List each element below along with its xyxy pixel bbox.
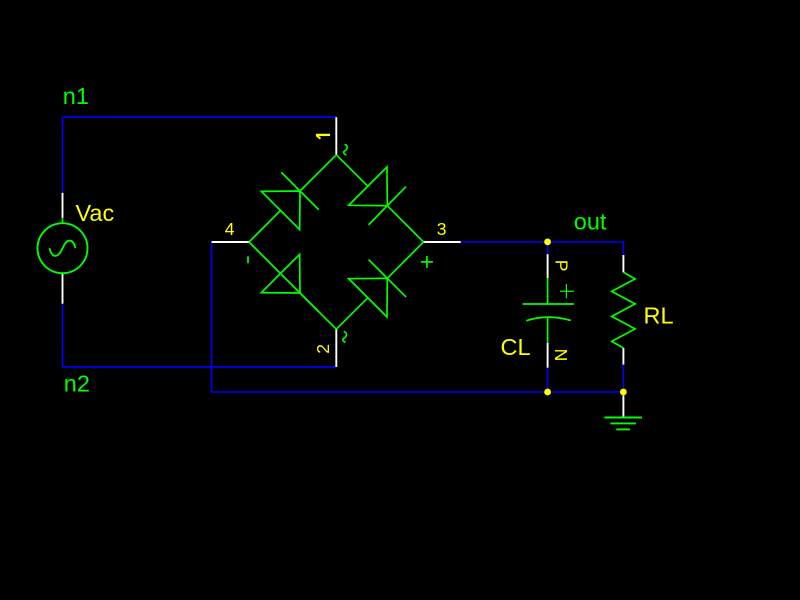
diode D1 cathode bar — [281, 172, 319, 210]
capacitor CL top plate — [523, 303, 574, 305]
diode D1 triangle — [261, 191, 300, 230]
svg-text:n1: n1 — [63, 83, 89, 109]
wire capacitor top — [547, 242, 549, 254]
pin Vac bottom — [62, 273, 64, 303]
svg-text:P: P — [551, 260, 571, 272]
pin 1 stub — [335, 117, 337, 155]
Vac sine wave — [50, 241, 76, 256]
wire net out — [461, 242, 624, 255]
svg-text:2: 2 — [313, 344, 333, 354]
resistor RL pin bottom — [622, 348, 624, 365]
svg-text:3: 3 — [437, 219, 447, 239]
diode D2 cathode bar — [369, 187, 407, 225]
diode D2 anode wire — [336, 155, 368, 186]
diode D4 cathode bar — [369, 260, 407, 298]
capacitor CL pin top — [547, 254, 549, 278]
capacitor CL pin bottom — [547, 343, 549, 368]
pin 3 stub — [424, 241, 461, 243]
diode D3 anode wire — [249, 242, 281, 274]
wire capacitor bottom — [547, 368, 549, 392]
diode D3 triangle — [261, 254, 300, 293]
wire net n2 — [63, 304, 337, 367]
svg-text:Vac: Vac — [76, 200, 115, 226]
wire resistor bottom — [622, 365, 624, 392]
junction dot out/CL — [544, 239, 551, 246]
diode D1 anode wire — [249, 211, 281, 243]
diode D4 anode wire — [336, 298, 368, 329]
svg-text:RL: RL — [644, 303, 674, 329]
pinlabel minus pin4 — [247, 256, 249, 263]
capacitor plus sign — [560, 284, 574, 298]
diode D3 cathode wire — [300, 293, 336, 329]
pin 2 stub — [335, 329, 337, 367]
pinlabel tilde pin1 — [344, 144, 348, 155]
svg-text:4: 4 — [225, 219, 235, 239]
wire net n1 — [63, 117, 337, 193]
pinlabel plus pin3 — [421, 256, 433, 268]
pinlabel tilde pin2 — [343, 332, 347, 343]
pin number 1 — [316, 135, 330, 139]
diode D4 cathode wire — [387, 242, 423, 278]
voltage source Vac circle — [38, 223, 88, 273]
capacitor CL bottom plate arc — [526, 317, 571, 321]
capacitor CL lead bottom — [547, 317, 549, 343]
pin Vac top — [62, 193, 64, 218]
diode D2 triangle — [349, 167, 388, 206]
capacitor CL lead top — [547, 278, 549, 304]
diode D2 cathode wire — [387, 206, 423, 242]
svg-text:out: out — [574, 208, 607, 234]
diode D1 cathode wire — [300, 155, 336, 191]
ground symbol — [604, 418, 642, 430]
svg-text:n2: n2 — [64, 370, 90, 396]
resistor RL zigzag — [612, 272, 635, 348]
svg-text:N: N — [551, 349, 571, 362]
ground pin stub — [622, 395, 624, 417]
wire node4 to ground rail — [212, 242, 624, 392]
lead Vac top green — [62, 218, 64, 224]
diode D4 triangle — [349, 278, 388, 317]
junction dot rail/CL — [544, 389, 551, 396]
junction dot rail/RL/gnd — [620, 389, 627, 396]
pin 4 stub — [212, 241, 249, 243]
resistor RL pin top — [622, 255, 624, 272]
svg-text:CL: CL — [501, 334, 531, 360]
diode D3 cathode bar — [281, 274, 319, 312]
